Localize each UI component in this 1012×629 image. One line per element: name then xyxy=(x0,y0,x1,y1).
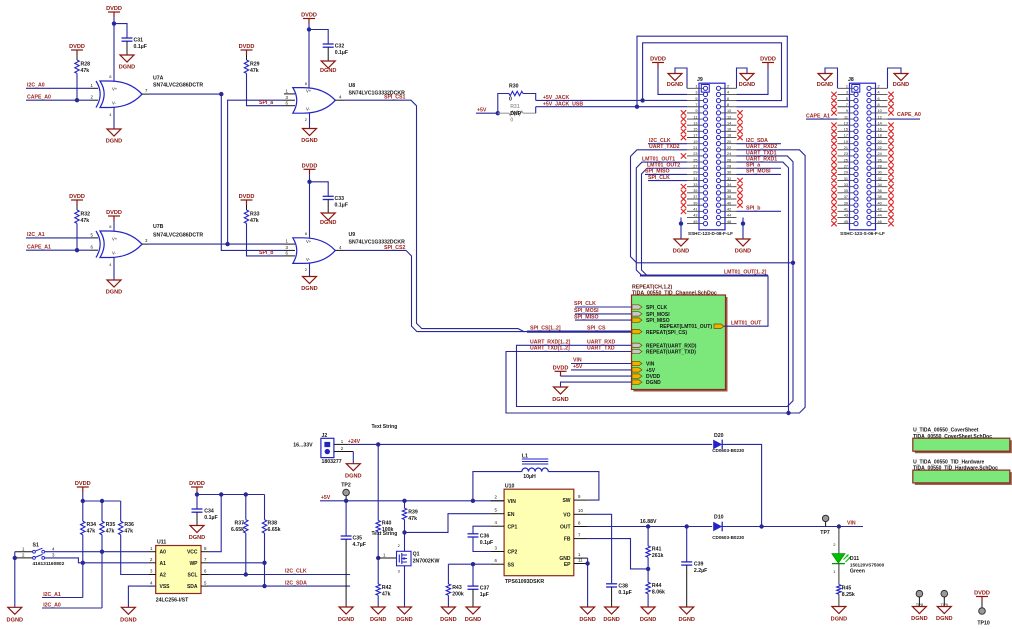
pin stubs and numbers U8 xyxy=(284,93,295,95)
svg-text:37: 37 xyxy=(844,195,848,199)
svg-text:SPI_MISO: SPI_MISO xyxy=(646,318,670,324)
svg-text:+5V: +5V xyxy=(646,368,656,374)
svg-text:DGND: DGND xyxy=(320,68,336,74)
svg-text:SPI_MOSI: SPI_MOSI xyxy=(646,312,670,318)
bus LMT01_OUT[1..2] xyxy=(640,275,768,277)
ground DGND (J2 pin2) xyxy=(352,452,354,464)
svg-text:31: 31 xyxy=(693,177,697,181)
svg-text:7: 7 xyxy=(695,103,697,107)
svg-text:OUT: OUT xyxy=(560,525,571,531)
svg-text:+5V: +5V xyxy=(477,107,487,113)
svg-text:1µF: 1µF xyxy=(480,592,489,598)
svg-text:200k: 200k xyxy=(452,592,464,598)
ground DGND (block) xyxy=(561,382,632,387)
svg-text:REPEAT(UART_RXD): REPEAT(UART_RXD) xyxy=(646,343,697,349)
ground DGND (U9) xyxy=(309,264,311,277)
IC U10 TPS61093DSKR body xyxy=(504,489,574,576)
svg-text:SPI_MISO: SPI_MISO xyxy=(645,169,670,175)
svg-text:D10: D10 xyxy=(714,515,724,521)
svg-text:UART_TXD2: UART_TXD2 xyxy=(649,144,680,150)
svg-text:SPI_b: SPI_b xyxy=(746,206,760,212)
resistor R41 261k xyxy=(647,527,649,547)
svg-text:SPI_CLK: SPI_CLK xyxy=(574,301,596,307)
svg-text:DGND: DGND xyxy=(640,617,656,623)
svg-text:2: 2 xyxy=(727,85,729,89)
svg-text:24LC256-I/ST: 24LC256-I/ST xyxy=(156,598,189,604)
svg-text:8.06k: 8.06k xyxy=(652,590,665,596)
transistor Q1 2N7002KW xyxy=(397,551,412,566)
svg-text:CAPE_A0: CAPE_A0 xyxy=(27,94,51,100)
ground DGND (J9 pin2) xyxy=(737,68,748,88)
svg-text:36: 36 xyxy=(727,189,731,193)
svg-text:R29: R29 xyxy=(250,62,260,68)
svg-text:DVDD: DVDD xyxy=(69,194,85,200)
svg-text:27: 27 xyxy=(693,164,697,168)
svg-text:EN: EN xyxy=(508,512,515,518)
svg-text:C37: C37 xyxy=(480,586,490,592)
svg-text:37: 37 xyxy=(693,195,697,199)
ground DGND (U10 GND/EP) xyxy=(581,607,595,614)
svg-text:39: 39 xyxy=(693,201,697,205)
svg-text:R30: R30 xyxy=(509,84,519,90)
sheet pin REPEAT(LMT01_OUT) xyxy=(714,324,724,328)
wire A0 row S1 pin4 to U11 xyxy=(45,551,149,553)
svg-text:TIDA_00550_TID_Channel.SchDoc: TIDA_00550_TID_Channel.SchDoc xyxy=(632,291,717,297)
resistor R42 47k xyxy=(377,558,379,584)
svg-text:28: 28 xyxy=(878,164,882,168)
svg-text:8.25k: 8.25k xyxy=(842,592,855,598)
svg-text:DGND: DGND xyxy=(370,617,386,623)
svg-text:A2: A2 xyxy=(160,573,167,579)
svg-text:Green: Green xyxy=(850,569,865,575)
svg-text:SPI_b: SPI_b xyxy=(259,250,273,256)
svg-text:30: 30 xyxy=(878,171,882,175)
svg-text:FB: FB xyxy=(564,537,571,543)
svg-text:11: 11 xyxy=(578,557,583,562)
U11 pin stubs and numbers xyxy=(149,551,156,553)
ground DGND (J8 pin1) xyxy=(825,68,838,88)
svg-text:TP2: TP2 xyxy=(341,482,351,488)
svg-text:12: 12 xyxy=(878,115,882,119)
wire VIN rail xyxy=(722,526,863,528)
svg-text:26: 26 xyxy=(878,158,882,162)
svg-text:6.65k: 6.65k xyxy=(231,527,244,533)
svg-text:5: 5 xyxy=(695,97,697,101)
node DVDD rail xyxy=(81,499,85,503)
wire Q1 source to DGND xyxy=(404,566,406,607)
svg-text:SPI_CS: SPI_CS xyxy=(587,326,606,332)
svg-text:Text String: Text String xyxy=(372,424,398,430)
svg-text:9: 9 xyxy=(695,109,697,113)
svg-text:0.1µF: 0.1µF xyxy=(134,44,147,50)
svg-text:DVDD: DVDD xyxy=(301,13,317,19)
svg-text:DVDD: DVDD xyxy=(760,57,776,63)
svg-text:DVDD: DVDD xyxy=(553,366,569,372)
ground DGND (U8) xyxy=(309,113,311,128)
svg-text:U10: U10 xyxy=(505,483,515,489)
wire L1 to SW xyxy=(548,472,599,501)
connector J2 1803277 xyxy=(321,438,334,457)
svg-text:C33: C33 xyxy=(335,196,345,202)
svg-text:29: 29 xyxy=(693,171,697,175)
wire U7A output xyxy=(142,93,149,95)
svg-text:DNP: DNP xyxy=(510,111,521,117)
wire DVDD to U7B V+ xyxy=(113,221,115,232)
svg-text:21: 21 xyxy=(693,146,697,150)
node UART_TXD junction xyxy=(791,261,795,265)
wire R32 to CAPE_A1 net xyxy=(76,223,78,250)
connector J8 body xyxy=(850,83,876,230)
svg-text:38: 38 xyxy=(727,195,731,199)
capacitor C39 2.2uF xyxy=(686,527,688,562)
svg-text:24: 24 xyxy=(878,152,882,156)
svg-text:U7A: U7A xyxy=(153,75,164,81)
svg-text:1: 1 xyxy=(846,85,848,89)
resistor R30 0 ohm xyxy=(498,94,509,114)
wire U7B output to U9 pin1 xyxy=(142,243,149,245)
svg-text:Text String: Text String xyxy=(372,531,398,537)
svg-text:C36: C36 xyxy=(480,533,490,539)
svg-text:10µH: 10µH xyxy=(523,474,536,480)
svg-text:23: 23 xyxy=(844,152,848,156)
svg-text:1803277: 1803277 xyxy=(322,459,342,465)
svg-text:DGND: DGND xyxy=(106,138,122,144)
ground DGND (C37) xyxy=(466,607,480,614)
connector J9 pins right xyxy=(716,85,736,226)
svg-text:C35: C35 xyxy=(353,536,363,542)
wire C31 to ground xyxy=(126,41,128,55)
svg-text:18: 18 xyxy=(878,134,882,138)
svg-text:R42: R42 xyxy=(382,585,392,591)
svg-text:13: 13 xyxy=(693,121,697,125)
svg-text:DGND: DGND xyxy=(936,616,952,622)
svg-text:DGND: DGND xyxy=(106,289,122,295)
svg-text:46: 46 xyxy=(878,220,882,224)
svg-text:R31: R31 xyxy=(510,104,520,110)
svg-text:47k: 47k xyxy=(81,68,90,74)
svg-text:EP: EP xyxy=(564,562,571,568)
ground DGND (R45) xyxy=(832,607,846,614)
svg-text:SPI_MOSI: SPI_MOSI xyxy=(746,169,771,175)
wire R39 to EN xyxy=(405,514,491,533)
svg-text:R40: R40 xyxy=(382,521,392,527)
svg-text:DGND: DGND xyxy=(338,617,354,623)
svg-text:29: 29 xyxy=(844,171,848,175)
ground DGND (R43) xyxy=(441,607,455,614)
ground DGND (R42) xyxy=(371,607,385,614)
svg-text:DGND: DGND xyxy=(831,617,847,623)
svg-text:47k: 47k xyxy=(250,68,259,74)
capacitor C38 0.1uF xyxy=(606,583,617,585)
svg-text:J2: J2 xyxy=(322,433,328,439)
capacitor C35 4.7uF xyxy=(345,501,347,536)
resistor R39 47k xyxy=(404,501,406,508)
svg-text:33: 33 xyxy=(693,183,697,187)
svg-text:10: 10 xyxy=(578,508,583,513)
svg-text:DGND: DGND xyxy=(603,617,619,623)
no-connect X marks J9 right xyxy=(737,110,742,208)
wire R28 to CAPE_A0 net xyxy=(76,73,78,100)
svg-text:44: 44 xyxy=(727,214,731,218)
svg-text:Q1: Q1 xyxy=(413,551,420,557)
svg-text:DGND: DGND xyxy=(320,220,336,226)
svg-text:261k: 261k xyxy=(652,553,664,559)
wire VCC up to DVDD rail xyxy=(209,495,222,552)
wire A1 row xyxy=(45,558,149,563)
svg-text:46: 46 xyxy=(727,220,731,224)
svg-text:DGND: DGND xyxy=(345,474,361,480)
connector J9 pin1 square xyxy=(701,85,709,93)
ground DGND (U7B) xyxy=(113,258,115,281)
svg-text:V-: V- xyxy=(306,107,311,112)
svg-text:6: 6 xyxy=(727,97,729,101)
svg-text:SPI_CS[1..2]: SPI_CS[1..2] xyxy=(530,326,561,332)
svg-text:SPI_a: SPI_a xyxy=(259,100,273,106)
sheet pin +5V xyxy=(632,368,642,372)
svg-text:J9: J9 xyxy=(697,77,703,83)
svg-text:16: 16 xyxy=(878,128,882,132)
svg-text:DGND: DGND xyxy=(739,82,755,88)
capacitor C33 xyxy=(323,195,334,197)
svg-text:20: 20 xyxy=(727,140,731,144)
svg-text:DGND: DGND xyxy=(673,249,689,255)
capacitor C32 xyxy=(323,43,334,45)
bus SPI_CS to REPEAT block xyxy=(527,331,632,333)
resistor R31 DNP xyxy=(498,112,509,114)
svg-text:R34: R34 xyxy=(87,522,97,528)
node DVDD/C31 junction xyxy=(112,21,116,25)
resistor R43 200k xyxy=(447,564,449,584)
svg-text:11: 11 xyxy=(694,115,698,119)
svg-text:DGND: DGND xyxy=(646,380,661,386)
svg-text:0.1µF: 0.1µF xyxy=(335,202,348,208)
svg-text:VO: VO xyxy=(563,512,570,518)
svg-text:REPEAT(SPI_CS): REPEAT(SPI_CS) xyxy=(646,330,687,336)
ground DGND (J9 pin1) xyxy=(675,68,687,88)
svg-text:SS: SS xyxy=(508,562,515,568)
ground DGND (C35) xyxy=(339,607,353,614)
node +5V split xyxy=(496,111,500,115)
svg-text:DGND: DGND xyxy=(552,397,568,403)
svg-text:VCC: VCC xyxy=(187,550,198,556)
svg-text:0.1µF: 0.1µF xyxy=(618,590,631,596)
svg-text:DVDD: DVDD xyxy=(69,44,85,50)
svg-text:R39: R39 xyxy=(408,509,418,515)
svg-text:S1: S1 xyxy=(33,543,39,549)
sheet pin VIN xyxy=(632,361,642,365)
svg-text:V+: V+ xyxy=(112,237,118,242)
wire U9 output to SPI_CS bus xyxy=(335,249,344,251)
svg-text:40: 40 xyxy=(727,201,731,205)
ground DGND (J8 pin2) xyxy=(888,68,902,88)
wire SS net xyxy=(448,563,490,565)
svg-text:DVDD: DVDD xyxy=(75,481,91,487)
wire DVDD rail right xyxy=(197,494,265,496)
svg-text:DVDD: DVDD xyxy=(239,44,255,50)
svg-text:VIN: VIN xyxy=(508,499,517,505)
svg-text:0.1µF: 0.1µF xyxy=(204,515,217,521)
svg-text:C39: C39 xyxy=(694,561,704,567)
wire R40 to Q1 gate xyxy=(378,557,396,559)
svg-text:12: 12 xyxy=(727,115,731,119)
svg-text:SPI_a: SPI_a xyxy=(746,163,760,169)
IC U11 24LC256 body xyxy=(156,546,201,594)
svg-text:SN74LVC2G86DCTR: SN74LVC2G86DCTR xyxy=(153,233,203,239)
svg-text:0.1µF: 0.1µF xyxy=(480,540,493,546)
svg-text:44: 44 xyxy=(878,214,882,218)
resistor R37 xyxy=(245,495,247,520)
test point TP8 xyxy=(916,590,923,597)
svg-text:R33: R33 xyxy=(250,212,260,218)
svg-text:R38: R38 xyxy=(268,520,278,526)
xor gate U7B SN74LVC2G86DCTR xyxy=(96,231,142,258)
wire junction to C33 xyxy=(310,182,329,197)
svg-text:DGND: DGND xyxy=(301,286,317,292)
svg-text:1: 1 xyxy=(695,85,697,89)
node R32/CAPE_A1 xyxy=(75,248,79,252)
inductor L1 10uH xyxy=(473,472,522,501)
svg-text:V+: V+ xyxy=(306,239,312,244)
wire inner loop +5V_JACK to J9 pins 5/6 xyxy=(640,98,644,102)
sheet pin REPEAT(SPI_CS) xyxy=(632,329,642,333)
svg-text:0: 0 xyxy=(509,96,512,102)
svg-text:R36: R36 xyxy=(124,522,134,528)
svg-text:2.2µF: 2.2µF xyxy=(694,568,707,574)
wire WP to R38 xyxy=(209,562,265,564)
pin stubs and numbers U9 xyxy=(284,243,295,245)
svg-text:REPEAT(UART_TXD): REPEAT(UART_TXD) xyxy=(646,350,696,356)
svg-text:DGND: DGND xyxy=(119,64,135,70)
svg-text:DGND: DGND xyxy=(667,82,683,88)
svg-text:SW: SW xyxy=(562,498,570,504)
svg-text:47k: 47k xyxy=(250,218,259,224)
svg-text:5: 5 xyxy=(846,97,848,101)
svg-text:39: 39 xyxy=(844,201,848,205)
test point TP7 xyxy=(822,515,828,521)
svg-text:I2C_A0: I2C_A0 xyxy=(43,602,61,608)
svg-text:V+: V+ xyxy=(112,87,118,92)
node DVDD/C33 junction xyxy=(307,180,311,184)
test point TP9 xyxy=(941,590,948,597)
svg-text:4: 4 xyxy=(878,91,880,95)
ground DGND (Q1) xyxy=(398,607,412,614)
svg-text:SPI_CLK: SPI_CLK xyxy=(646,305,668,311)
wire R33 to SPI_b net / U9 pin6 xyxy=(247,223,285,256)
svg-text:4.7µF: 4.7µF xyxy=(353,542,366,548)
svg-text:UART_RXD1: UART_RXD1 xyxy=(746,156,777,162)
capacitor C34 xyxy=(196,495,198,510)
svg-text:38: 38 xyxy=(878,195,882,199)
sheet pin SPI_CLK xyxy=(632,305,642,309)
svg-text:DGND: DGND xyxy=(817,82,833,88)
svg-text:DGND: DGND xyxy=(120,617,136,623)
sheet pin REPEAT(UART_TXD) xyxy=(632,349,642,353)
node DVDD/C32 junction xyxy=(307,27,311,31)
svg-text:R44: R44 xyxy=(652,583,662,589)
xor gate U7A SN74LVC2G86DCTR xyxy=(96,81,142,108)
svg-text:45: 45 xyxy=(844,220,848,224)
svg-text:19: 19 xyxy=(844,140,848,144)
svg-text:6.65k: 6.65k xyxy=(268,527,281,533)
svg-text:VSS: VSS xyxy=(160,584,171,590)
svg-text:CAPE_A1: CAPE_A1 xyxy=(806,113,830,119)
svg-text:UART_TXD[1..2]: UART_TXD[1..2] xyxy=(530,346,570,352)
svg-text:41: 41 xyxy=(693,208,697,212)
svg-text:C31: C31 xyxy=(134,38,144,44)
svg-text:R41: R41 xyxy=(652,547,662,553)
svg-text:47k: 47k xyxy=(408,516,417,522)
svg-text:22: 22 xyxy=(727,146,731,150)
svg-text:SCL: SCL xyxy=(188,573,198,579)
svg-text:UART_RXD[1..2]: UART_RXD[1..2] xyxy=(530,340,571,346)
svg-text:42: 42 xyxy=(878,208,882,212)
svg-text:11: 11 xyxy=(844,115,848,119)
svg-text:24: 24 xyxy=(727,152,731,156)
svg-text:DVDD: DVDD xyxy=(189,481,205,487)
svg-text:U8: U8 xyxy=(349,83,356,89)
svg-text:32: 32 xyxy=(878,177,882,181)
svg-text:+5V: +5V xyxy=(573,364,583,370)
svg-text:CAPE_A0: CAPE_A0 xyxy=(897,112,921,118)
svg-text:I2C_SDA: I2C_SDA xyxy=(746,138,768,144)
svg-text:31: 31 xyxy=(844,177,848,181)
svg-text:I2C_CLK: I2C_CLK xyxy=(285,569,307,575)
svg-text:45: 45 xyxy=(693,220,697,224)
wire FB to divider xyxy=(588,539,649,569)
svg-text:47k: 47k xyxy=(106,529,115,535)
svg-text:DGND: DGND xyxy=(465,617,481,623)
svg-text:C34: C34 xyxy=(204,509,214,515)
svg-text:3: 3 xyxy=(846,91,848,95)
svg-text:UART_RXD: UART_RXD xyxy=(587,340,615,346)
svg-text:25: 25 xyxy=(844,158,848,162)
svg-text:CD0603-B0230: CD0603-B0230 xyxy=(712,535,744,540)
wire S1 pins 1/2 to DGND xyxy=(14,552,16,608)
node U7B out branch xyxy=(225,242,229,246)
connector J8 pins left xyxy=(838,85,859,226)
svg-text:CD0603-B0230: CD0603-B0230 xyxy=(712,448,744,453)
svg-text:R28: R28 xyxy=(81,62,91,68)
svg-text:13: 13 xyxy=(844,121,848,125)
connector J9 pins left xyxy=(687,85,708,226)
LED D11 Green 150120VS75000 xyxy=(838,527,840,554)
svg-text:U_TIDA_00550_CoverSheet: U_TIDA_00550_CoverSheet xyxy=(913,428,979,434)
svg-text:16.88V: 16.88V xyxy=(640,519,657,525)
capacitor C31 xyxy=(122,37,133,39)
svg-text:R35: R35 xyxy=(106,522,116,528)
resistor R34 xyxy=(81,521,85,534)
or gate U9 SN74LVC1G3332DCKR xyxy=(293,238,336,264)
svg-text:SSHC-123-D-08-F-LF: SSHC-123-D-08-F-LF xyxy=(688,231,733,236)
svg-text:DGND: DGND xyxy=(893,82,909,88)
svg-text:LMT01_OUT1: LMT01_OUT1 xyxy=(642,156,675,162)
svg-text:47k: 47k xyxy=(87,529,96,535)
svg-text:34: 34 xyxy=(878,183,882,187)
svg-text:34: 34 xyxy=(727,183,731,187)
svg-text:I2C_CLK: I2C_CLK xyxy=(649,138,671,144)
svg-text:DVDD: DVDD xyxy=(106,6,122,12)
svg-text:DVDD: DVDD xyxy=(239,194,255,200)
svg-text:150120VS75000: 150120VS75000 xyxy=(850,563,885,568)
svg-text:DGND: DGND xyxy=(396,617,412,623)
svg-text:17: 17 xyxy=(693,134,697,138)
svg-text:I2C_A1: I2C_A1 xyxy=(27,232,45,238)
svg-text:SDA: SDA xyxy=(187,584,198,590)
ground DGND (J9 pins 44/46) xyxy=(742,217,744,239)
resistor R45 8.25k xyxy=(837,585,841,595)
svg-text:41: 41 xyxy=(844,208,848,212)
svg-text:D11: D11 xyxy=(850,556,859,562)
